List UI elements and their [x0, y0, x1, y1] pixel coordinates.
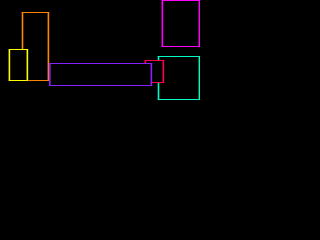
magenta rectangle (top right)	[162, 0, 201, 47]
orange rectangle (tall, left)	[22, 12, 50, 81]
dark junction pixel where yellow box fill clips orange bottom edge	[27, 80, 29, 81]
purple rectangle (wide, center, drawn over red)	[49, 63, 152, 86]
red rectangle (small, drawn over green)	[145, 60, 165, 83]
yellow rectangle (left, drawn over orange)	[9, 49, 29, 81]
green rectangle (bottom right)	[158, 56, 201, 100]
